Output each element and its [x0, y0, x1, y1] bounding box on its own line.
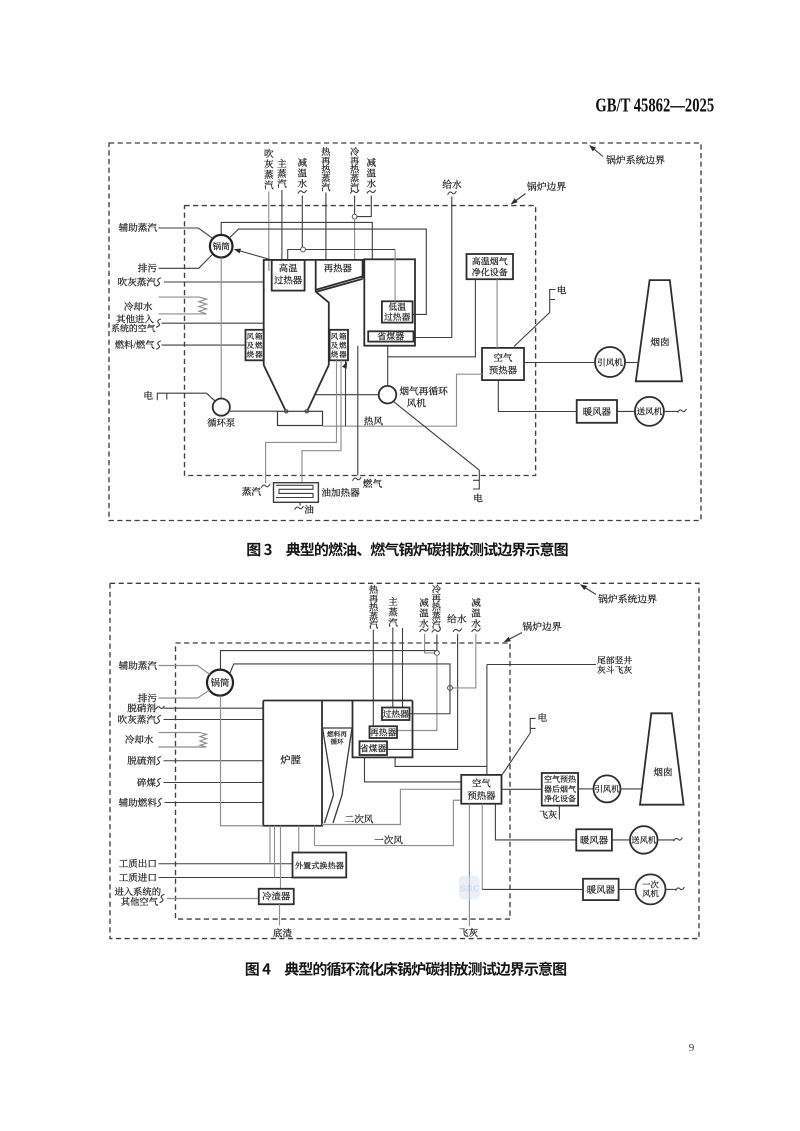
- fig4 wire air heater to 暖风器2 (gray then dark): [481, 804, 483, 890]
- fig3 diagonal recirc fan to 电 terminal: [394, 402, 480, 489]
- fig4 node2: [448, 686, 453, 691]
- figure 4 inner dashed border: [176, 643, 511, 919]
- fig4 wire 减温水 to node (gray): [425, 634, 435, 653]
- fig3 wire drum NE diagonal bus to 低温过热器: [229, 229, 426, 314]
- svg-text:一次风: 一次风: [374, 832, 403, 846]
- svg-text:电: 电: [473, 491, 483, 505]
- fig4 fly ash line bottom (gray): [468, 804, 470, 926]
- svg-text:图 3 典型的燃油、燃气锅炉碳排放测试边界示意图: 图 3 典型的燃油、燃气锅炉碳排放测试边界示意图: [246, 539, 567, 560]
- fig3 fuel line oil drop L2: [302, 360, 341, 482]
- fig3 wire 其他空气 to furnace: [162, 322, 264, 324]
- fig3 wire 燃料燃气 to windbox: [162, 344, 246, 346]
- svg-text:二次风: 二次风: [345, 812, 374, 826]
- fig3 wire 电 to pump: [207, 393, 216, 401]
- fig4 电 terminal: [530, 718, 535, 733]
- svg-text:锅炉边界: 锅炉边界: [527, 179, 566, 193]
- fig3 wire drum riser to top bus: [221, 222, 372, 259]
- fig4 fan 一次风机: [636, 874, 666, 904]
- svg-text:炉膛: 炉膛: [280, 751, 300, 766]
- fig3 wire 减温水 to node: [301, 196, 303, 248]
- fig3 wire node to 再热器 (gray): [354, 219, 356, 261]
- svg-text:辅助蒸汽: 辅助蒸汽: [119, 220, 158, 234]
- svg-text:图 4 典型的循环流化床锅炉碳排放测试边界示意图: 图 4 典型的循环流化床锅炉碳排放测试边界示意图: [245, 958, 566, 979]
- fig4 flue wire rear pass to air heater (gray): [365, 757, 462, 782]
- fig3 rear pass box: [364, 259, 415, 345]
- svg-text:冷却水: 冷却水: [125, 732, 154, 746]
- fig4 wire 辅助蒸汽 to drum (gray): [159, 666, 210, 675]
- fig4 wire 暖风器2 to 一次风机: [619, 888, 636, 890]
- svg-text:碎煤: 碎煤: [137, 775, 157, 789]
- svg-text:烧: 烧: [331, 349, 339, 360]
- fig3 squiggle under 减温水 second: [367, 190, 376, 194]
- fig4 chimney 烟囱: [640, 713, 684, 804]
- svg-text:其他空气: 其他空气: [121, 894, 159, 908]
- fig3 wire 空气预热器 to 引风机: [524, 362, 595, 364]
- svg-text:工质进口: 工质进口: [119, 870, 157, 884]
- svg-text:冷渣器: 冷渣器: [262, 889, 291, 903]
- svg-text:过热器: 过热器: [384, 310, 411, 323]
- fig4 drum downcomer (gray): [221, 696, 264, 826]
- fig3 cooling water coil: [159, 296, 200, 298]
- fig3 node on 冷再热蒸汽 line: [352, 214, 357, 219]
- fig3 wire rear pass bottom to recirc fan: [387, 346, 389, 386]
- fig3 squiggle under 给水: [448, 191, 457, 195]
- fig4 box 暖风器 2: [583, 879, 619, 900]
- svg-text:暖风器: 暖风器: [587, 882, 616, 896]
- fig4 drum 锅筒: [207, 670, 233, 696]
- SAC watermark: [459, 876, 480, 900]
- fig3 squiggle under 减温水: [298, 190, 307, 194]
- fig3 windbox burner right box 风箱及燃烧器: [330, 330, 348, 361]
- svg-text:烧: 烧: [247, 349, 255, 360]
- fig3 sealing pot under hopper: [278, 411, 323, 425]
- svg-text:汽: 汽: [369, 617, 378, 631]
- svg-text:锅筒: 锅筒: [211, 675, 230, 689]
- svg-text:暖风器: 暖风器: [583, 404, 612, 418]
- svg-text:吹灰蒸汽: 吹灰蒸汽: [118, 712, 157, 726]
- fig4 box 过热器: [382, 708, 410, 721]
- svg-text:省煤器: 省煤器: [360, 741, 387, 754]
- fig4 wire 引风机 to chimney: [621, 788, 643, 790]
- fig3 oil heater coil: [276, 485, 313, 497]
- svg-text:循环泵: 循环泵: [207, 415, 235, 429]
- fig3 gas line 燃气: [357, 346, 359, 476]
- fig3 wire 减温水2 joining node: [357, 196, 372, 217]
- fig4 wire air heater to 暖风器1: [495, 804, 576, 840]
- fig4 diagonal 电 to air heater: [502, 733, 530, 775]
- fig3 电 terminal upper right: [550, 290, 556, 313]
- fig3 hopper outlet circles: [285, 410, 288, 413]
- fig3 chimney 烟囱: [636, 280, 682, 381]
- fig3 burner arrow: [342, 360, 350, 368]
- fig4 wire 其他空气 to 冷渣器 (gray): [167, 898, 259, 900]
- fig4 flue wire2 (gray): [395, 757, 487, 766]
- svg-text:汽: 汽: [388, 615, 398, 629]
- fig3 wire air heater bottom to 暖风器: [498, 380, 576, 411]
- fig3 fan 送风机: [635, 397, 664, 426]
- svg-text:送风机: 送风机: [637, 406, 663, 418]
- svg-text:汽: 汽: [277, 176, 287, 190]
- fig3 wire 排污 to drum: [159, 254, 213, 268]
- fig3 flue recirculation fan 烟气再循环风机: [379, 386, 397, 404]
- figure 4 boundary arrow inner: [505, 633, 522, 642]
- fig4 wire to 尾部竖井灰斗飞灰 label: [487, 664, 596, 666]
- svg-text:吹灰蒸汽: 吹灰蒸汽: [118, 274, 157, 288]
- svg-text:再热器: 再热器: [324, 261, 353, 275]
- fig3 box 高温烟气净化设备: [467, 254, 514, 279]
- svg-text:引风机: 引风机: [594, 783, 620, 795]
- fig4 cyclone 燃料再循环: [323, 728, 353, 823]
- fig3 box 低温过热器: [382, 301, 413, 322]
- fig3 wire hopper to recirc fan: [316, 394, 379, 396]
- fig4 furnace bottom drop wires (gray): [269, 826, 271, 864]
- svg-text:水: 水: [367, 176, 377, 190]
- svg-text:烟囱: 烟囱: [653, 764, 672, 778]
- svg-text:工质出口: 工质出口: [119, 856, 157, 870]
- fig3 wire 辅助蒸汽 to drum: [159, 228, 213, 239]
- fig3 squiggle 燃气: [352, 477, 361, 481]
- fig4 rear shaft wire 尾部竖井: [486, 665, 488, 775]
- svg-text:9: 9: [689, 1042, 695, 1054]
- fig4 wire 给水 to 省煤器: [387, 634, 458, 749]
- fig3 wire 热再热蒸汽 to 再热器: [325, 193, 327, 260]
- svg-text:净化设备: 净化设备: [472, 265, 508, 278]
- fig3 wire 吹灰蒸汽 down into furnace: [268, 192, 270, 272]
- svg-text:过热器: 过热器: [274, 273, 303, 287]
- fig4 box 省煤器: [360, 741, 388, 755]
- fig4 wire 减温水2 to node2 (gray): [452, 634, 476, 688]
- fig4 wire second steam line to 过热器: [402, 628, 404, 708]
- svg-text:电: 电: [143, 388, 153, 402]
- fig3 windbox burner left box 风箱及燃烧器: [246, 330, 264, 361]
- svg-text:送风机: 送风机: [631, 834, 657, 846]
- fig3 oil line 油: [299, 502, 301, 505]
- fig3 wire 冷再热蒸汽 to node: [354, 196, 356, 215]
- fig3 flue wire 净化设备 to 空气预热器 (gray): [496, 279, 498, 348]
- fig3 steam line 高温过热器 to drum with arrow: [235, 249, 272, 260]
- svg-text:暖风器: 暖风器: [580, 832, 609, 846]
- svg-text:循环: 循环: [330, 736, 344, 746]
- fig4 primary air 一次风 (gray): [315, 800, 462, 845]
- svg-text:油: 油: [304, 502, 314, 516]
- svg-text:外置式换热器: 外置式换热器: [295, 860, 344, 871]
- fig4 wire 排污 to drum (gray): [159, 690, 210, 698]
- fig3 squiggle 蒸汽: [261, 484, 270, 488]
- svg-text:蒸汽: 蒸汽: [242, 484, 262, 498]
- fig3 wire pump to sealing pot: [230, 410, 278, 412]
- svg-text:油加热器: 油加热器: [321, 485, 360, 499]
- fig4 secondary air 二次风 (gray): [322, 789, 461, 824]
- fig4 box 冷渣器: [259, 889, 294, 905]
- svg-text:燃料/燃气: 燃料/燃气: [115, 337, 155, 351]
- svg-text:热风: 热风: [364, 413, 384, 427]
- svg-text:系统的空气: 系统的空气: [111, 321, 155, 334]
- fig4 一次风机 outlet squiggle: [666, 888, 677, 890]
- figure 3 boundary arrow to inner border: [512, 194, 526, 204]
- fig3 hot air wire 热风 (gray): [323, 374, 483, 426]
- figure 3 outer dashed border 锅炉系统边界 box: [109, 143, 701, 521]
- svg-text:省煤器: 省煤器: [377, 329, 404, 342]
- fig3 电 terminal at pump: [157, 393, 206, 400]
- svg-text:GB/T 45862—2025: GB/T 45862—2025: [595, 93, 714, 116]
- svg-text:锅炉边界: 锅炉边界: [522, 619, 561, 633]
- svg-text:汽: 汽: [321, 179, 330, 193]
- svg-text:锅炉系统边界: 锅炉系统边界: [598, 591, 657, 605]
- fig3 drum downcomer to pump (gray): [220, 258, 222, 399]
- fig3 bus 过热器-低温过热器 with node 减温水: [288, 250, 395, 260]
- fig3 box 暖风器: [577, 400, 617, 423]
- fig3 oil heater box 油加热器: [274, 483, 319, 503]
- svg-text:预热器: 预热器: [489, 362, 518, 376]
- fig3 wire 暖风器 to 送风机: [617, 410, 635, 412]
- fig3 fuel line L3: [345, 360, 347, 426]
- fig4 wire node1 to 过热器 (gray): [397, 655, 437, 731]
- fig3 box 空气预热器: [482, 348, 524, 380]
- fig4 fly ash tick 飞灰 at 净化设备: [558, 806, 560, 820]
- svg-text:水: 水: [419, 616, 429, 630]
- fig4 wire 净化设备 to 引风机: [578, 788, 593, 790]
- fig3 flue wire to 净化设备: [388, 279, 476, 357]
- svg-text:燃气: 燃气: [363, 476, 383, 490]
- fig3 wire 吹灰蒸汽 left to furnace: [164, 281, 264, 283]
- fig4 cooling water coil: [159, 732, 201, 734]
- fig4 box 再热器: [370, 726, 398, 738]
- svg-text:汽: 汽: [264, 177, 274, 191]
- svg-text:预热器: 预热器: [467, 788, 496, 802]
- fig4 furnace box 炉膛: [263, 701, 412, 826]
- svg-text:净化设备: 净化设备: [544, 794, 576, 805]
- svg-text:烟囱: 烟囱: [650, 335, 669, 349]
- fig3 box 省煤器: [368, 331, 413, 341]
- svg-text:风机: 风机: [642, 888, 659, 900]
- fig4 wire 冷再热蒸汽 to node: [436, 635, 438, 651]
- fig3 squiggle 吹灰蒸汽 left: [156, 278, 161, 286]
- svg-text:引风机: 引风机: [597, 356, 623, 368]
- fig3 wire 送风机 outlet with squiggle: [664, 410, 679, 412]
- svg-text:辅助燃料: 辅助燃料: [119, 795, 158, 809]
- svg-text:灰斗飞灰: 灰斗飞灰: [597, 663, 632, 676]
- svg-text:排污: 排污: [138, 261, 158, 275]
- svg-text:脱硫剂: 脱硫剂: [127, 753, 156, 767]
- svg-text:水: 水: [471, 616, 481, 630]
- fig4 送风机 outlet squiggle: [658, 839, 674, 841]
- svg-text:水: 水: [298, 176, 308, 190]
- svg-text:底渣: 底渣: [273, 925, 293, 939]
- fig3 fan 引风机: [595, 347, 625, 377]
- svg-text:飞灰: 飞灰: [459, 925, 479, 939]
- fig4 wire air heater to 净化设备: [502, 788, 542, 790]
- figure 4 boundary arrow outer: [581, 585, 596, 594]
- fig3 fuel line steam drop L1: [266, 360, 337, 483]
- svg-text:风机: 风机: [407, 396, 427, 410]
- fig4 node1: [435, 651, 440, 656]
- fig3 wire 主蒸汽 to 高温过热器: [281, 190, 283, 260]
- fig3 pump 循环泵: [213, 399, 230, 416]
- fig4 fan 送风机: [630, 826, 658, 854]
- fig3 furnace outline: [264, 260, 363, 410]
- fig4 box 外置式换热器: [293, 853, 347, 878]
- svg-text:给水: 给水: [442, 177, 462, 191]
- svg-text:器: 器: [339, 349, 347, 360]
- fig4 box 暖风器 1: [576, 829, 612, 850]
- svg-text:辅助蒸汽: 辅助蒸汽: [119, 658, 158, 672]
- svg-text:再热器: 再热器: [370, 725, 397, 738]
- fig3 wire down to 低温过热器 top: [394, 250, 396, 302]
- fig3 squiggle 燃料燃气: [156, 341, 161, 349]
- fig3 squiggle under 冷再热蒸汽: [350, 190, 359, 194]
- fig4 fan 引风机: [594, 775, 621, 802]
- svg-text:给水: 给水: [447, 612, 467, 626]
- fig4 drum NE bus to 再热器: [230, 664, 450, 714]
- svg-text:锅筒: 锅筒: [213, 241, 231, 253]
- fig3 squiggle 其他空气: [156, 319, 161, 327]
- fig4 wire 冷渣器 to 底渣 (gray): [279, 904, 281, 925]
- fig3 drum 锅筒: [210, 235, 233, 258]
- fig3 wire 引风机 to chimney: [625, 362, 639, 364]
- figure 4 outer dashed border: [110, 583, 699, 938]
- fig3 diagonal 电 to air heater: [514, 313, 550, 347]
- fig3 reheater flue slant double line: [316, 276, 362, 289]
- svg-text:过热器: 过热器: [382, 707, 409, 720]
- svg-text:电: 电: [557, 283, 567, 297]
- fig4 drum riser bus to node1: [221, 651, 437, 670]
- fig3 wire 给水 to 省煤器: [415, 197, 452, 338]
- fig4 box 空气预热器: [461, 775, 501, 804]
- fig4 box 空气预热器后烟气净化设备: [542, 773, 578, 806]
- svg-text:锅炉系统边界: 锅炉系统边界: [606, 153, 665, 167]
- svg-text:飞灰: 飞灰: [539, 807, 557, 821]
- svg-text:器: 器: [255, 349, 263, 360]
- svg-text:电: 电: [538, 710, 548, 724]
- fig3 box 高温过热器: [272, 260, 305, 291]
- svg-text:sac: sac: [459, 881, 479, 895]
- fig4 wire 暖风器1 to 送风机: [612, 839, 630, 841]
- figure 3 inner dashed border 锅炉边界 box: [185, 206, 536, 476]
- svg-text:汽: 汽: [432, 617, 441, 631]
- figure 3 boundary arrow to outer border: [591, 146, 604, 156]
